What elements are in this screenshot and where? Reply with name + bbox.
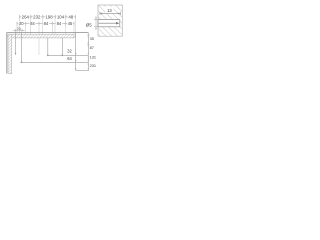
leader line A [48, 54, 89, 56]
diameter arrows [95, 17, 97, 29]
hole centerline V1 [15, 32, 17, 54]
depth dim arrows [100, 13, 120, 15]
drill direction arrow [116, 22, 119, 25]
hole centerline V2 [21, 32, 23, 62]
arrow at V1 bottom [15, 53, 17, 55]
svg-text:231: 231 [90, 63, 97, 68]
right edge line V6 [87, 33, 89, 72]
mini dim 25 between first holes [13, 27, 25, 33]
svg-text:84: 84 [57, 21, 62, 26]
svg-text:104: 104 [57, 14, 65, 19]
hole centerline V3 [47, 38, 49, 56]
depth dim 13 white backing [105, 7, 113, 14]
dim row2 arrowheads [17, 23, 74, 24]
svg-text:Ø5: Ø5 [86, 22, 93, 27]
drilled hole white channel [98, 20, 120, 27]
station line V5 [75, 33, 77, 71]
svg-text:64: 64 [67, 56, 72, 61]
dim row1 arrowheads [20, 16, 76, 17]
dim row1 chain line [20, 16, 76, 18]
svg-text:198: 198 [45, 14, 53, 19]
dim row1 labels 264 232 198 104 48 [22, 14, 74, 19]
wall corner outer lines [7, 33, 89, 74]
hole centerline V4 [61, 38, 63, 56]
svg-text:131: 131 [90, 55, 97, 60]
bottom dim line C [76, 69, 89, 71]
dim row2 labels 20 84 84 84 45 [19, 21, 73, 26]
svg-text:25: 25 [17, 27, 21, 31]
svg-text:232: 232 [33, 14, 41, 19]
right chain ticks on V6 [88, 35, 89, 70]
drill axis line [99, 22, 117, 24]
depth dim line [100, 12, 120, 15]
svg-text:48: 48 [68, 14, 73, 19]
svg-text:87: 87 [90, 45, 94, 50]
dim row2 label backings [18, 21, 73, 26]
background [0, 0, 130, 78]
wall cross-section hatched [98, 5, 122, 36]
svg-text:20: 20 [19, 21, 24, 26]
svg-text:35: 35 [90, 36, 94, 41]
left wall hatched strip [8, 34, 12, 73]
node at V3 bottom [47, 54, 49, 56]
leader line B [22, 61, 89, 63]
svg-text:84: 84 [30, 21, 35, 26]
svg-text:45: 45 [68, 21, 73, 26]
top rail hatched band [8, 34, 74, 38]
dim row1 label backings [21, 14, 74, 19]
extension lines from dims down to rail [17, 15, 76, 56]
node at V2 bottom [21, 61, 23, 63]
dim row2 ticks [17, 22, 74, 26]
svg-text:13: 13 [107, 8, 112, 13]
V5 arrow ticks [75, 53, 77, 70]
node at V4 bottom [61, 54, 63, 56]
dim row2 chain line [17, 23, 74, 25]
svg-text:264: 264 [22, 14, 30, 19]
diameter extent line [94, 17, 99, 30]
dim row1 ticks [20, 15, 76, 19]
svg-text:84: 84 [44, 21, 49, 26]
right chain labels [90, 36, 97, 68]
svg-text:32: 32 [67, 48, 72, 53]
